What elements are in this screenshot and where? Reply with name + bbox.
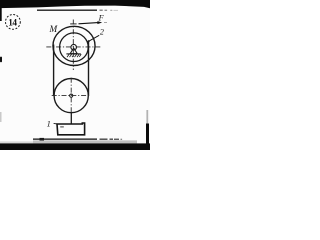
lower pulley circle: [54, 79, 88, 113]
scan artifact: left edge bar: [0, 0, 2, 21]
fixed support triangle: [70, 48, 77, 54]
svg-text:1: 1: [47, 119, 51, 128]
dash-dot horizontal centerline lower pulley: [52, 95, 91, 97]
svg-text:2: 2: [100, 28, 104, 37]
paper background: [0, 0, 150, 150]
wire: right rope: [88, 41, 90, 96]
scan artifact: left edge blob: [0, 57, 2, 63]
scan artifact: left edge smudge: [0, 112, 2, 122]
axle hub circle: [71, 44, 77, 50]
scan artifact: bottom rule line: [33, 138, 97, 140]
load block 1: [57, 123, 85, 135]
short dash crossing centerline above pulley: [70, 23, 76, 25]
svg-text:M: M: [49, 24, 59, 34]
scan artifact: top rule line: [37, 10, 97, 11]
ink speck inside block: [60, 126, 64, 127]
lower pulley hub: [70, 94, 73, 97]
tick at block top-left: [54, 122, 57, 125]
scan artifact: bottom black band: [0, 143, 150, 150]
pulley M inner rim: [60, 33, 89, 62]
support ground line: [66, 53, 80, 55]
dash-dot vertical centerline upper pulley: [72, 20, 74, 71]
svg-text:F: F: [98, 13, 105, 22]
svg-text:14: 14: [8, 18, 17, 28]
scan artifact: bottom gray band: [0, 141, 33, 143]
force F arrow: [79, 23, 99, 24]
scan artifact: right edge smudge: [146, 110, 148, 124]
problem number badge circle 14: [5, 15, 20, 30]
scan artifact: top black band: [0, 0, 150, 8]
support hatching: [67, 54, 81, 57]
dash-dot vertical centerline lower pulley: [70, 78, 72, 114]
wire: hanging rope to load: [70, 113, 72, 124]
wire: left rope: [53, 45, 55, 96]
pulley M outer rim (slightly squashed in the scan): [53, 26, 95, 65]
leader arrow for 2: [89, 35, 99, 41]
scan artifact: right edge bar: [146, 124, 149, 145]
dash-dot horizontal centerline upper pulley: [46, 46, 101, 48]
